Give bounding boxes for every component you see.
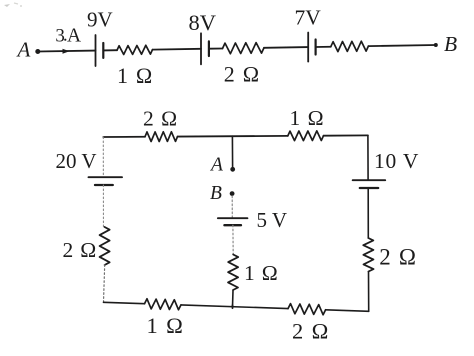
svg-text:A: A [16, 38, 31, 62]
wire [264, 46, 308, 49]
wire [103, 136, 145, 138]
label 2 ohm (bottom-right) [292, 319, 330, 344]
resistor (unlabelled) [331, 41, 369, 51]
svg-text:1 Ω: 1 Ω [147, 313, 185, 338]
label 8V [189, 10, 217, 35]
wire [104, 302, 145, 303]
label 1 ohm (top-right) [290, 106, 325, 130]
wire [102, 185, 104, 227]
svg-text:1 Ω: 1 Ω [290, 106, 325, 130]
svg-text:B: B [210, 183, 222, 204]
resistor 2 ohm [223, 43, 265, 54]
junction (bottom) [232, 305, 234, 308]
battery 5V long plate [218, 217, 248, 219]
svg-text:2 Ω: 2 Ω [224, 62, 260, 87]
battery 9V short plate [102, 43, 104, 58]
label 1 ohm [117, 63, 153, 88]
svg-text:9V: 9V [87, 8, 113, 32]
svg-text:1 Ω: 1 Ω [244, 261, 279, 285]
node B terminal dot [434, 43, 438, 47]
battery 8V long plate [200, 33, 202, 64]
label 1 ohm (middle) [244, 261, 279, 285]
resistor 2 ohm (top-left) [145, 132, 178, 142]
label 2 ohm (left) [63, 238, 98, 262]
wire [232, 291, 235, 307]
wire [38, 50, 96, 53]
battery 10V short plate [360, 187, 378, 189]
battery 8V short plate [208, 41, 210, 56]
wire [368, 272, 370, 312]
label 5 V [257, 208, 288, 232]
label A (node) [209, 155, 223, 176]
wire [181, 305, 288, 309]
wire [367, 188, 369, 238]
svg-text:A: A [209, 155, 223, 176]
svg-text:20 V: 20 V [56, 149, 97, 173]
label 2 ohm (top-left) [143, 107, 178, 131]
resistor 1 ohm (bottom-left) [145, 299, 182, 310]
label 10 V [374, 149, 419, 173]
label 2 ohm [224, 62, 260, 87]
current arrow 3 A [63, 49, 70, 54]
svg-text:10 V: 10 V [374, 149, 419, 173]
resistor 2 ohm (right) [363, 238, 373, 272]
label B (node) [210, 183, 222, 204]
wire [209, 47, 223, 49]
svg-text:8V: 8V [189, 10, 217, 35]
svg-text:5 V: 5 V [257, 208, 288, 232]
battery 5V short plate [224, 224, 241, 226]
label 7V [295, 6, 322, 30]
label 3 A [55, 25, 81, 46]
svg-text:2 Ω: 2 Ω [143, 107, 178, 131]
resistor 1 ohm (top-right) [288, 131, 324, 141]
wire [104, 265, 105, 303]
battery 7V long plate [307, 33, 309, 62]
label B [444, 32, 457, 56]
battery 9V long plate [95, 35, 97, 66]
wire [102, 137, 104, 177]
svg-text:7V: 7V [295, 6, 322, 30]
wire [326, 310, 369, 311]
node A dot [230, 167, 235, 172]
svg-text:B: B [444, 32, 457, 56]
resistor 1 ohm [117, 45, 153, 54]
wire [153, 48, 202, 51]
wire [231, 196, 233, 218]
resistor 1 ohm (middle) [228, 255, 238, 291]
label 2 ohm (right) [379, 245, 417, 270]
label 20 V [56, 149, 97, 173]
wire [316, 46, 331, 48]
battery 10V long plate [353, 179, 386, 181]
svg-text:3: 3 [55, 25, 65, 46]
label A [16, 38, 31, 62]
junction (top) [231, 136, 233, 167]
node B dot [230, 191, 235, 196]
wire [178, 135, 288, 138]
node A terminal dot [35, 49, 40, 54]
battery 20V long plate [89, 176, 123, 178]
resistor 2 ohm (left) [100, 227, 110, 265]
svg-text:2 Ω: 2 Ω [63, 238, 98, 262]
wire [232, 225, 234, 254]
svg-text:2 Ω: 2 Ω [379, 245, 417, 270]
battery 20V short plate [95, 184, 113, 186]
wire [368, 45, 436, 46]
battery 7V short plate [315, 39, 317, 54]
wire [324, 134, 368, 136]
label 9V [87, 8, 113, 32]
svg-text:2 Ω: 2 Ω [292, 319, 330, 344]
svg-text:A: A [67, 26, 81, 47]
svg-text:1 Ω: 1 Ω [117, 63, 153, 88]
resistor 2 ohm (bottom-right) [288, 304, 326, 315]
wire [103, 49, 117, 51]
label 1 ohm (bottom-left) [147, 313, 185, 338]
wire [367, 135, 369, 180]
